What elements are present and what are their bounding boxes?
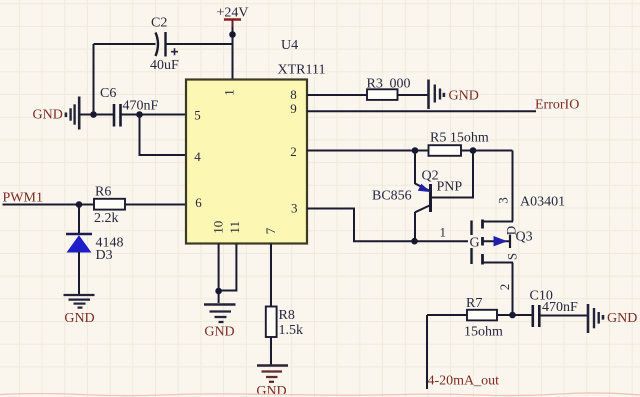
op-amp U4 XTR111 body: [186, 38, 325, 244]
svg-text:470nF: 470nF: [123, 99, 159, 114]
ground under R8: [256, 366, 288, 397]
svg-text:GND: GND: [33, 108, 63, 123]
wire output net to R7: [427, 314, 467, 316]
svg-text:11: 11: [227, 221, 242, 234]
svg-text:7: 7: [263, 227, 278, 234]
wire +24V to U4 pin 1: [232, 27, 234, 80]
wire node A down to Q2 emitter: [414, 151, 416, 185]
power GND (right of R3): [429, 80, 479, 110]
wire to 4-20mA_out: [426, 315, 428, 389]
svg-text:3: 3: [291, 201, 298, 216]
svg-text:9: 9: [290, 101, 297, 116]
svg-text:C2: C2: [151, 16, 167, 31]
wire pin 11 to ground: [219, 244, 237, 291]
wire C2 right plate to +24V net: [167, 43, 233, 45]
svg-text:470nF: 470nF: [542, 300, 578, 315]
wire pin 7 to R8: [270, 244, 272, 307]
svg-text:R8: R8: [279, 308, 295, 323]
torn paper edge artifact: [0, 393, 640, 396]
svg-text:PNP: PNP: [437, 180, 463, 195]
svg-text:1: 1: [440, 225, 447, 240]
svg-text:R6: R6: [95, 185, 111, 200]
MOSFET Q3 A03401: [470, 195, 566, 265]
svg-text:4: 4: [194, 149, 201, 164]
svg-text:D3: D3: [96, 248, 113, 263]
svg-text:1.5k: 1.5k: [279, 323, 304, 338]
resistor R3: [367, 77, 411, 100]
capacitor C2: [150, 16, 179, 74]
svg-text:6: 6: [195, 195, 202, 210]
junction source/R7/C10: [509, 312, 516, 319]
svg-text:ErrorIO: ErrorIO: [535, 98, 579, 113]
svg-text:3: 3: [495, 197, 510, 204]
wire R7 to source node: [497, 314, 532, 316]
svg-text:1: 1: [221, 89, 236, 96]
junction dot PWM1/D3: [76, 201, 83, 208]
wire PWM1 node to D3: [78, 205, 80, 235]
wire GND to junction: [79, 114, 113, 116]
wire U4 pin 8 to R3: [307, 94, 367, 96]
svg-text:5: 5: [194, 107, 201, 122]
resistor R5: [429, 131, 489, 156]
wire Q2 collector to gate net: [414, 212, 416, 241]
wire R8 to ground: [270, 337, 272, 365]
wire R3 to GND: [398, 94, 429, 96]
wire C10 to GND: [539, 315, 588, 317]
junction dot C6 output: [136, 111, 143, 118]
wire U4 pin 3 to gate: [307, 209, 468, 242]
capacitor C6: [100, 86, 159, 127]
wire PWM1 to R6: [3, 204, 95, 206]
svg-text:S: S: [505, 253, 520, 260]
ground under pins 10/11: [204, 305, 236, 340]
wire riser GND net vertical: [93, 44, 95, 115]
junction on +24V net: [229, 31, 236, 38]
wire C6 to U4 pin 5: [121, 114, 187, 116]
svg-text:C6: C6: [100, 86, 116, 101]
svg-text:GND: GND: [607, 311, 637, 326]
wire R5 to drain node: [461, 150, 513, 152]
svg-text:40uF: 40uF: [150, 58, 179, 73]
svg-text:8: 8: [290, 87, 297, 102]
resistor R6: [94, 185, 125, 227]
transistor Q2 BC856 PNP: [372, 169, 462, 213]
svg-text:4-20mA_out: 4-20mA_out: [428, 374, 500, 389]
svg-text:U4: U4: [281, 38, 298, 53]
svg-text:R5 15ohm: R5 15ohm: [430, 131, 489, 146]
wire node B down to Q2 base: [432, 151, 473, 198]
svg-text:GND: GND: [204, 325, 234, 340]
svg-text:R7: R7: [466, 296, 482, 311]
svg-text:A03401: A03401: [520, 195, 565, 210]
wire D3 to ground: [78, 252, 80, 295]
junction dot at GND riser: [90, 111, 97, 118]
svg-text:GND: GND: [449, 89, 479, 104]
svg-text:15ohm: 15ohm: [464, 325, 503, 340]
junction node A: [412, 147, 419, 154]
wire drain up to R5 net: [512, 151, 514, 222]
junction on gate net: [411, 238, 418, 245]
svg-text:BC856: BC856: [372, 189, 412, 204]
wire to U4 pin 4: [140, 115, 187, 156]
junction pins 10/11: [215, 288, 222, 295]
power GND (left of C6): [33, 97, 80, 130]
svg-text:10: 10: [211, 221, 226, 234]
power +24V: [217, 6, 249, 29]
svg-text:2: 2: [290, 144, 297, 159]
resistor R8: [266, 307, 303, 339]
capacitor C10: [530, 289, 579, 328]
ground under D3: [64, 295, 95, 326]
junction node B: [470, 147, 477, 154]
wire C2 left plate to riser: [94, 43, 156, 45]
svg-text:GND: GND: [64, 311, 94, 326]
wire U4 pin 2 to node A: [307, 150, 429, 152]
wire pin 10 to ground: [218, 244, 220, 304]
svg-text:XTR111: XTR111: [278, 63, 326, 78]
wire R6 to U4 pin 6: [125, 204, 186, 206]
svg-text:2: 2: [497, 284, 512, 291]
svg-text:2.2k: 2.2k: [94, 211, 119, 226]
diode D3: [66, 234, 124, 263]
svg-text:Q3: Q3: [516, 230, 533, 245]
wire source down to output net: [512, 263, 514, 316]
svg-text:PWM1: PWM1: [3, 191, 43, 206]
power GND (right of C10): [588, 304, 637, 333]
resistor R7: [464, 296, 503, 340]
wire U4 pin 9 ErrorIO: [307, 110, 536, 112]
